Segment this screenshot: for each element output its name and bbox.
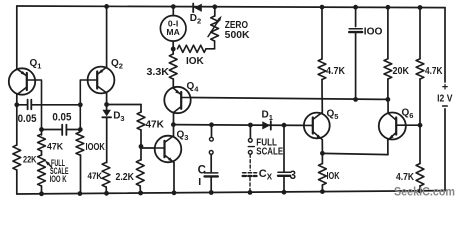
junction dot cap3-ground (282, 190, 287, 195)
wire 3.3K to Q4 (172, 79, 174, 88)
wire 100K to ground (80, 155, 82, 194)
svg-text:C: C (198, 164, 206, 176)
wire cap100 to bus (355, 32, 357, 99)
junction dot D3 node (104, 102, 109, 107)
label Q2 (111, 58, 123, 71)
svg-text:CX: CX (259, 168, 273, 182)
svg-text:Q4: Q4 (187, 81, 200, 94)
wire right edge lower (444, 109, 446, 191)
label D1 (262, 110, 273, 123)
label FULL SCALE 100K pot (50, 158, 69, 184)
svg-text:D3: D3 (113, 110, 124, 123)
resistor 22K (13, 145, 21, 170)
junction dot Cx-ground (248, 190, 253, 195)
label 10K (327, 171, 341, 182)
label 20K (393, 66, 410, 77)
wire meter to node (172, 41, 174, 49)
junction dot rail-4.7K (320, 5, 325, 10)
capacitor 0.05 right (62, 125, 66, 135)
wire Q4 base bus (191, 98, 388, 100)
label 22K (23, 154, 37, 165)
junction dot 2.2K-ground (138, 191, 143, 196)
label Q6 (402, 108, 414, 121)
wire 20K to bus (387, 79, 389, 99)
wire y130 left seg (42, 129, 63, 131)
transistor Q4 (164, 87, 190, 113)
label 47K middle (146, 120, 165, 131)
junction dot pot-ground (39, 191, 44, 196)
svg-text:47K: 47K (146, 120, 165, 131)
junction dot Cx tap (248, 123, 253, 128)
svg-text:500K: 500K (225, 30, 251, 41)
wire main signal (173, 124, 304, 127)
junction dot main node (171, 122, 176, 127)
label Cx (259, 168, 273, 182)
label D3 (113, 110, 124, 123)
svg-text:SeekIC.com: SeekIC.com (394, 184, 455, 198)
junction dot rail-Q2 (104, 4, 109, 9)
label 4.7K right lower (396, 172, 415, 183)
terminal C1 upper (210, 137, 214, 141)
wire rail to ZERO pot (214, 7, 216, 16)
wire Q3 base (141, 147, 155, 149)
svg-text:MA: MA (166, 27, 180, 37)
wire C1 lower to cap (210, 154, 212, 172)
junction dot Q5 emitter node (320, 151, 325, 156)
junction dot base-branch at y130 (39, 127, 44, 132)
capacitor Cx dashed (243, 154, 257, 192)
resistor 10K (319, 164, 327, 186)
transistor Q6 (379, 113, 420, 141)
potentiometer FULL SCALE 100K (38, 155, 52, 186)
label D2 (190, 13, 201, 26)
wire Q1 base to divider (36, 80, 42, 135)
resistor 47K upper-left (38, 134, 46, 151)
resistor 47K under D3 (102, 163, 110, 188)
label 100K (86, 142, 105, 153)
label 4.7K upper (326, 66, 346, 77)
junction dot 47K-ground (104, 191, 109, 196)
junction dot 100K-ground (78, 191, 83, 196)
resistor 100K (76, 132, 84, 155)
svg-text:3.3K: 3.3K (147, 67, 170, 78)
svg-text:Q1: Q1 (30, 58, 42, 71)
wire 10K to ground (321, 185, 323, 192)
svg-text:20K: 20K (393, 66, 410, 77)
svg-text:I2 V: I2 V (437, 94, 453, 105)
junction dot 4.7K-ground (418, 188, 423, 193)
label + supply (442, 82, 448, 94)
node A junction dot (14, 102, 19, 107)
resistor 3.3K (169, 54, 177, 79)
wire node to 2.2K (140, 147, 142, 161)
label 100 (364, 26, 383, 38)
junction dot rail-4.7K-right (418, 5, 423, 10)
junction dot Q3-ground (172, 190, 177, 195)
label C1 (198, 164, 206, 188)
svg-text:Q2: Q2 (111, 58, 123, 71)
svg-text:2.2K: 2.2K (116, 172, 135, 183)
svg-text:+: + (442, 82, 448, 94)
wire 47K to ground (105, 187, 107, 193)
wire bus to Q5 collector (321, 99, 323, 112)
wire y130 right seg (66, 129, 80, 131)
junction dot C1 tap (209, 122, 214, 127)
wire cap3 down (283, 125, 285, 172)
label Q1 (30, 58, 42, 71)
junction dot rail-meter (171, 4, 176, 9)
transistor Q5 (304, 112, 330, 139)
wire 47K-mid to Q3 base node (140, 130, 142, 147)
wire rail to 4.7K (321, 7, 323, 59)
label 0.05 right (52, 111, 71, 123)
transistor Q1 (9, 68, 36, 95)
wire Q6 base node down (419, 125, 421, 163)
junction dot Q2-base-node (78, 102, 83, 107)
label minus supply (443, 105, 448, 107)
svg-text:Q3: Q3 (177, 130, 189, 143)
wire 4.7K lower to ground (419, 186, 421, 191)
wire C1 tap down (211, 125, 213, 137)
svg-text:0.05: 0.05 (18, 113, 37, 125)
label 2.2K (116, 172, 135, 183)
wire Q6 emitter to Q5 node (322, 153, 388, 154)
diode D3 (102, 110, 111, 118)
wire Q4 collector down (173, 113, 175, 125)
wire rail to cap100 (355, 7, 357, 26)
wire Q3 emitter to ground (173, 163, 175, 193)
junction dot rail-cap100 (353, 5, 358, 10)
wire emitter node to 10K (321, 153, 323, 163)
wire C1 to ground (210, 176, 212, 192)
wire 4.7K to Q6 base node (419, 79, 421, 125)
label ZERO 500K (225, 20, 251, 41)
svg-text:4.7K: 4.7K (396, 172, 415, 183)
wire Q3 collector up (173, 125, 175, 136)
svg-text:SCALE: SCALE (256, 146, 283, 157)
junction dot 100K top (78, 127, 83, 132)
svg-text:IOK: IOK (186, 56, 205, 67)
resistor 10K horizontal (178, 45, 207, 52)
wire cap3 to ground (283, 176, 285, 192)
label 10K horizontal (186, 56, 205, 67)
svg-text:47K: 47K (88, 171, 103, 182)
wire pot to ground (41, 186, 43, 194)
svg-text:D1: D1 (262, 110, 273, 123)
label 47K under D3 (88, 171, 103, 182)
diode D2 (193, 4, 202, 13)
wire top supply rail (17, 6, 445, 8)
label 3 (290, 170, 296, 182)
wire 4.7K to bus (321, 80, 323, 100)
terminal FULL SCALE upper (248, 138, 252, 142)
junction dot Q3 base node (139, 144, 144, 149)
svg-text:4.7K: 4.7K (326, 66, 346, 77)
wire down to 47K-mid (140, 105, 142, 113)
tick between terminals (248, 146, 254, 148)
resistor 2.2K (136, 160, 144, 186)
wire meter node to 3.3K (172, 49, 174, 54)
wire node A to C-left (17, 104, 28, 106)
wire D3-node to 47K-mid (107, 104, 141, 106)
label Q4 (187, 81, 200, 94)
wire Q2 emitter from rail (106, 6, 108, 67)
wire Cx tap down (249, 125, 251, 138)
wire bottom ground rail (17, 191, 445, 194)
svg-text:D2: D2 (190, 13, 201, 26)
resistor 4.7K right lower (416, 164, 424, 187)
label 0.05 left (18, 113, 37, 125)
label 3.3K (147, 67, 170, 78)
diode D1 (262, 121, 271, 129)
junction dot cap3 tap (282, 123, 287, 128)
capacitor 100 (349, 29, 362, 32)
svg-text:47K: 47K (47, 142, 63, 153)
label 4.7K right upper (425, 66, 443, 77)
wire bus to Q6 collector (387, 99, 389, 113)
svg-text:Q5: Q5 (327, 109, 339, 122)
svg-text:22K: 22K (23, 154, 37, 165)
capacitor C1 (205, 173, 218, 177)
wire rail to 4.7K right (419, 8, 421, 59)
wire rail to 20K (387, 7, 389, 59)
label Q5 (327, 109, 339, 122)
svg-text:0.05: 0.05 (52, 111, 71, 123)
terminal C1 lower (209, 151, 213, 155)
svg-text:3: 3 (290, 170, 296, 182)
wire Q6 emitter down (387, 140, 389, 155)
wire 10K to pot bottom (206, 48, 215, 50)
wire Q5 emitter down (321, 140, 323, 154)
wire 22K to ground (16, 170, 18, 194)
wire C-left to Q2 base node (31, 104, 80, 106)
resistor 47K middle (137, 112, 145, 130)
wire pot bottom to 10K (214, 41, 216, 49)
potentiometer ZERO 500K (208, 16, 222, 41)
label 47K upper-left (47, 142, 63, 153)
transistor Q3 (155, 136, 182, 163)
junction dot rail-20K (386, 5, 391, 10)
resistor 4.7K upper (318, 59, 326, 80)
wire 47K to pot (41, 151, 43, 155)
wire Q2 collector down (106, 93, 108, 110)
resistor 4.7K right upper (416, 59, 424, 79)
terminal FULL SCALE lower (248, 150, 252, 154)
watermark SeekIC.com (394, 184, 455, 198)
junction dot meter node (171, 47, 176, 52)
junction dot Q6 base node (418, 123, 423, 128)
label Q3 (177, 130, 189, 143)
meter M1 0-1 MA (160, 15, 186, 41)
svg-text:IOO: IOO (364, 26, 383, 38)
resistor 20K (384, 59, 392, 79)
wire D3 to 47K (106, 117, 108, 162)
svg-text:IOO K: IOO K (50, 174, 67, 184)
label 12 V (437, 94, 453, 105)
wire right edge upper (444, 8, 446, 82)
svg-text:I: I (198, 176, 201, 188)
junction dot cap100-bus (353, 97, 358, 102)
junction dot C1-ground (209, 190, 214, 195)
wire 2.2K to ground (139, 186, 141, 193)
junction dot 20K-bus (386, 97, 391, 102)
wire Q1 collector down (16, 95, 18, 145)
wire Q1 emitter from top rail (16, 6, 18, 69)
wire Q2 base left-down (80, 80, 87, 130)
junction dot 10K-ground (320, 189, 325, 194)
svg-text:IOK: IOK (327, 171, 341, 182)
transistor Q2 (88, 67, 115, 94)
junction dot rail-pot (212, 4, 217, 9)
svg-text:4.7K: 4.7K (425, 66, 443, 77)
wire rail to meter (172, 7, 174, 16)
label FULL SCALE (256, 137, 283, 157)
svg-text:IOOK: IOOK (86, 142, 105, 153)
capacitor 0.05 left (28, 100, 32, 110)
capacitor 3 (278, 172, 290, 176)
svg-text:Q6: Q6 (402, 108, 414, 121)
